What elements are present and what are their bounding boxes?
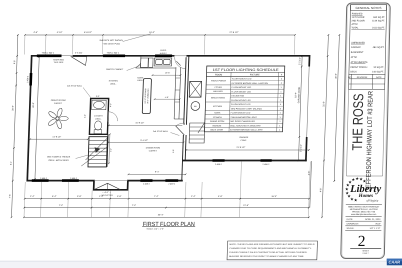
svg-text:2'-4": 2'-4" bbox=[191, 195, 196, 198]
svg-text:2 458-2: 2 458-2 bbox=[263, 163, 271, 166]
svg-text:LINOL.: LINOL. bbox=[137, 79, 144, 82]
svg-text:4'-8": 4'-8" bbox=[319, 188, 322, 193]
svg-text:2111 SQ.FT.: 2111 SQ.FT. bbox=[372, 27, 385, 30]
svg-text:PLEASE CONSULT SALES CONTRACT: PLEASE CONSULT SALES CONTRACT FOR ACTUAL… bbox=[229, 251, 308, 254]
garage width dim bbox=[186, 149, 309, 151]
svg-text:2 458-2: 2 458-2 bbox=[40, 177, 48, 180]
svg-text:9'-4 1/2": 9'-4 1/2" bbox=[140, 139, 148, 142]
svg-text:GREAT ROOM: GREAT ROOM bbox=[211, 97, 225, 100]
svg-text:TOTAL: TOTAL bbox=[351, 27, 359, 30]
svg-text:ONE STAIRS 5 TREADS: ONE STAIRS 5 TREADS bbox=[47, 156, 71, 159]
interior dim 8-4 bbox=[129, 173, 186, 175]
svg-text:36'-4": 36'-4" bbox=[158, 213, 164, 216]
kitchen dims bbox=[152, 74, 180, 76]
svg-text:★: ★ bbox=[354, 198, 358, 203]
angled patio door triangle bbox=[71, 57, 87, 66]
svg-text:Homes: Homes bbox=[358, 193, 374, 199]
svg-text:27'-8 1/2": 27'-8 1/2" bbox=[229, 31, 239, 34]
svg-text:32 SQ.FT.: 32 SQ.FT. bbox=[373, 66, 384, 69]
date / drawn / scale rows bbox=[345, 220, 381, 222]
svg-text:APRIL 21, 2023: APRIL 21, 2023 bbox=[365, 218, 381, 221]
svg-text:FLUSH MOUNT LED: FLUSH MOUNT LED bbox=[231, 99, 251, 102]
svg-text:2: 2 bbox=[357, 233, 365, 250]
svg-text:HALLWAY: HALLWAY bbox=[213, 90, 223, 93]
lighting schedule table bbox=[204, 66, 284, 132]
svg-text:3'-8": 3'-8" bbox=[77, 195, 82, 198]
svg-text:4'-0": 4'-0" bbox=[109, 103, 112, 107]
svg-text:www.libertyhomesofva.com: www.libertyhomesofva.com bbox=[351, 213, 377, 216]
top dimension extension lines bbox=[23, 36, 26, 55]
svg-text:4'-8": 4'-8" bbox=[308, 171, 311, 176]
svg-text:21'-8": 21'-8" bbox=[243, 204, 249, 207]
svg-text:2'-2 1/2": 2'-2 1/2" bbox=[298, 57, 301, 65]
revision table bbox=[349, 74, 385, 89]
bath toilet bbox=[94, 130, 102, 134]
svg-text:FRONT PORCH: FRONT PORCH bbox=[211, 80, 227, 83]
svg-text:ATTIC: ATTIC bbox=[351, 23, 358, 26]
svg-text:WALL MOUNTED FLOODLIGHT: WALL MOUNTED FLOODLIGHT bbox=[230, 124, 261, 127]
svg-text:1149 SQ.FT.: 1149 SQ.FT. bbox=[372, 19, 385, 22]
svg-text:ROOM: ROOM bbox=[215, 73, 222, 76]
svg-text:FLUSH MOUNT LED: FLUSH MOUNT LED bbox=[231, 103, 251, 106]
disclaimer note box bbox=[227, 241, 317, 260]
svg-text:SHEET: SHEET bbox=[362, 250, 370, 253]
kitchen counter along top bbox=[136, 67, 176, 69]
svg-text:5'-8": 5'-8" bbox=[84, 114, 87, 118]
title block (right side) bbox=[341, 3, 391, 259]
svg-text:CARPET: CARPET bbox=[149, 149, 158, 152]
kitchen island bbox=[142, 79, 151, 114]
left dimension line bbox=[12, 35, 18, 217]
project title vertical text bbox=[347, 89, 349, 176]
svg-text:of Virginia: of Virginia bbox=[366, 200, 379, 203]
svg-text:CAAR: CAAR bbox=[389, 260, 401, 265]
photo bottom edge strip bbox=[0, 260, 402, 262]
svg-text:CHANGES DUE TO CODE REQUIREMEN: CHANGES DUE TO CODE REQUIREMENTS AND MEC… bbox=[229, 247, 312, 250]
svg-text:7'-4": 7'-4" bbox=[132, 204, 137, 207]
windows bottom wall bbox=[32, 179, 49, 182]
svg-text:GREAT ROOM: GREAT ROOM bbox=[51, 99, 66, 102]
windows top wall bbox=[37, 54, 62, 57]
svg-text:2'-4": 2'-4" bbox=[30, 195, 35, 198]
svg-text:2x6 STUD WALL: 2x6 STUD WALL bbox=[67, 85, 83, 88]
dishwasher bbox=[148, 58, 153, 67]
svg-text:8x8 DECK NOT SHOWN: 8x8 DECK NOT SHOWN bbox=[100, 39, 124, 42]
svg-text:BASEMENT: BASEMENT bbox=[351, 51, 364, 54]
svg-text:26'-8": 26'-8" bbox=[32, 102, 35, 108]
svg-text:1ST FLOOR LIGHTING SCHEDULE: 1ST FLOOR LIGHTING SCHEDULE bbox=[213, 68, 280, 72]
great room width dim bbox=[30, 138, 88, 140]
half bath walls bbox=[89, 99, 108, 135]
svg-text:2x6 STUD WALL: 2x6 STUD WALL bbox=[153, 130, 169, 133]
right dimension lines bbox=[298, 56, 302, 161]
svg-text:LINOL.: LINOL. bbox=[95, 117, 102, 120]
svg-text:2'-2": 2'-2" bbox=[96, 95, 100, 98]
svg-text:W/ GUTTER: W/ GUTTER bbox=[101, 194, 113, 197]
svg-text:DRAWN BY:: DRAWN BY: bbox=[347, 223, 360, 226]
svg-text:DATE: DATE bbox=[376, 76, 382, 79]
svg-text:30'-8": 30'-8" bbox=[334, 73, 337, 79]
svg-text:FRONT PORCH: FRONT PORCH bbox=[350, 66, 367, 69]
svg-text:4'-8": 4'-8" bbox=[218, 195, 223, 198]
door house to garage bbox=[182, 124, 188, 136]
svg-text:GARAGE: GARAGE bbox=[351, 46, 361, 49]
svg-text:3'-8": 3'-8" bbox=[117, 195, 122, 198]
svg-text:962 SQ.FT.: 962 SQ.FT. bbox=[373, 16, 385, 19]
svg-text:18'-6": 18'-6" bbox=[165, 72, 170, 75]
ceiling fan bbox=[56, 117, 59, 120]
svg-text:TEMPERED: TEMPERED bbox=[53, 58, 65, 61]
svg-text:14'-8 1/2": 14'-8 1/2" bbox=[52, 135, 61, 138]
svg-text:★: ★ bbox=[355, 176, 359, 181]
pantry cabinet bbox=[141, 58, 149, 67]
svg-text:PANTRY CABINET: PANTRY CABINET bbox=[106, 68, 124, 71]
svg-text:2 BULB BATHROOM LIGHT: 2 BULB BATHROOM LIGHT bbox=[230, 116, 257, 119]
garage entry steps bbox=[189, 123, 205, 143]
svg-text:DECK: DECK bbox=[350, 70, 357, 73]
svg-text:2 458-2: 2 458-2 bbox=[70, 177, 78, 180]
svg-text:FLUSH MOUNT LED: FLUSH MOUNT LED bbox=[231, 86, 251, 89]
svg-text:2 458-2: 2 458-2 bbox=[168, 183, 176, 186]
svg-text:GARAGE: GARAGE bbox=[212, 124, 222, 127]
svg-text:W/ 9" OVERHANG: W/ 9" OVERHANG bbox=[146, 88, 150, 104]
svg-text:21'-8": 21'-8" bbox=[322, 101, 325, 107]
svg-text:5'-4": 5'-4" bbox=[10, 161, 13, 165]
svg-text:4'-8": 4'-8" bbox=[33, 31, 38, 34]
svg-text:NO.: NO. bbox=[348, 76, 352, 79]
svg-text:GARAGE DOOR: GARAGE DOOR bbox=[297, 86, 301, 103]
svg-text:- SEE DECK PLAN: - SEE DECK PLAN bbox=[102, 42, 120, 45]
svg-text:CARPET: CARPET bbox=[54, 102, 63, 105]
svg-text:KITCHEN: KITCHEN bbox=[109, 80, 119, 83]
interior dim 31-8 bbox=[109, 125, 184, 127]
svg-text:FIXED: FIXED bbox=[160, 49, 167, 52]
svg-text:4'-10": 4'-10" bbox=[57, 31, 63, 34]
svg-text:OPEN - BOTH SIDES: OPEN - BOTH SIDES bbox=[48, 159, 69, 162]
svg-text:KITCHEN: KITCHEN bbox=[213, 105, 223, 108]
right counter band bbox=[174, 67, 176, 119]
svg-text:FLUSH MOUNT LED: FLUSH MOUNT LED bbox=[231, 90, 251, 93]
svg-text:2 458-2: 2 458-2 bbox=[26, 75, 29, 83]
svg-text:16'-0": 16'-0" bbox=[149, 31, 155, 34]
svg-text:MID SIZED CHANDELIER: MID SIZED CHANDELIER bbox=[230, 120, 255, 123]
svg-text:26'-8": 26'-8" bbox=[11, 105, 14, 111]
svg-text:DINING ROOM: DINING ROOM bbox=[210, 120, 225, 123]
svg-text:16'-4": 16'-4" bbox=[271, 195, 277, 198]
svg-text:GARAGE: GARAGE bbox=[239, 136, 249, 139]
svg-text:THE ROSS: THE ROSS bbox=[349, 94, 366, 151]
svg-text:EXTERIOR BRONZE WALL LANTERN: EXTERIOR BRONZE WALL LANTERN bbox=[232, 82, 269, 85]
svg-text:FOYER: FOYER bbox=[215, 86, 223, 89]
great room interior vertical dim bbox=[35, 57, 39, 180]
floor plan drawing (skewed like photo) bbox=[6, 31, 340, 260]
svg-text:TWIN 2 845-2: TWIN 2 845-2 bbox=[41, 52, 54, 55]
svg-text:7'-4": 7'-4" bbox=[59, 204, 64, 207]
svg-text:5'-4": 5'-4" bbox=[52, 195, 57, 198]
svg-text:THIS SIDE: THIS SIDE bbox=[53, 61, 64, 64]
main stairs bbox=[88, 137, 107, 167]
interior dim ticks bbox=[152, 74, 154, 76]
svg-text:1/2 BATH: 1/2 BATH bbox=[94, 115, 103, 118]
svg-text:140 SQ.FT.: 140 SQ.FT. bbox=[372, 70, 384, 73]
svg-text:21'-8 1/2": 21'-8 1/2" bbox=[237, 146, 246, 149]
svg-text:2'-2 1/2": 2'-2 1/2" bbox=[299, 144, 302, 152]
svg-text:GENERAL NOTES: GENERAL NOTES bbox=[355, 6, 381, 10]
svg-text:1/2 BATH: 1/2 BATH bbox=[213, 116, 222, 119]
kitchen sink bbox=[154, 58, 172, 66]
svg-text:DATE:: DATE: bbox=[347, 218, 354, 221]
svg-text:4-853-2: 4-853-2 bbox=[160, 52, 168, 55]
porch gables bbox=[94, 180, 128, 182]
back door opening bbox=[174, 55, 186, 58]
interior dim 9-4 bbox=[108, 142, 183, 144]
window left wall bbox=[29, 73, 32, 86]
svg-text:TWIN 2 845-2: TWIN 2 845-2 bbox=[106, 52, 119, 55]
bath vanity bbox=[92, 100, 107, 109]
svg-text:8'-4": 8'-4" bbox=[155, 170, 160, 173]
svg-text:16'-4": 16'-4" bbox=[294, 92, 297, 98]
svg-text:2 OF 7: 2 OF 7 bbox=[362, 252, 369, 255]
svg-text:FLUSH MOUNT LED: FLUSH MOUNT LED bbox=[232, 78, 252, 81]
svg-text:2 458-2: 2 458-2 bbox=[215, 163, 223, 166]
svg-text:NOOK: NOOK bbox=[137, 76, 144, 79]
svg-text:★: ★ bbox=[362, 178, 366, 183]
bath door swing bbox=[108, 112, 110, 122]
top dimension line bbox=[25, 34, 295, 36]
svg-text:BUILDER RESERVES THE RIGHT TO: BUILDER RESERVES THE RIGHT TO MAKE CHANG… bbox=[229, 255, 305, 258]
bottom dimension lines row2 bbox=[24, 207, 308, 209]
garage door opening bbox=[305, 67, 310, 138]
svg-text:4'-8": 4'-8" bbox=[8, 194, 11, 198]
svg-text:FIXTURE: FIXTURE bbox=[250, 73, 260, 76]
svg-text:ATTIC: ATTIC bbox=[351, 56, 358, 59]
svg-text:CONC.: CONC. bbox=[240, 139, 247, 142]
svg-text:NOOK: NOOK bbox=[214, 112, 221, 115]
svg-text:MINI PENDANT LIGHT (ISLAND): MINI PENDANT LIGHT (ISLAND) bbox=[231, 107, 262, 110]
svg-text:5'-8": 5'-8" bbox=[13, 60, 16, 64]
stair side dim bbox=[109, 134, 110, 163]
svg-text:3'-8 3/4": 3'-8 3/4" bbox=[75, 52, 83, 55]
svg-text:DINING ROOM: DINING ROOM bbox=[146, 146, 161, 149]
bottom overall dimension bbox=[24, 216, 309, 218]
svg-text:2 458-2: 2 458-2 bbox=[143, 183, 151, 186]
svg-text:REVISION: REVISION bbox=[357, 76, 368, 79]
interior wall foyer/dining bbox=[107, 134, 108, 167]
svg-text:6'-8 1/2": 6'-8 1/2" bbox=[84, 31, 92, 34]
svg-text:NOTE: THESE PLANS ARE DEEMED A: NOTE: THESE PLANS ARE DEEMED ACCURATE BU… bbox=[230, 243, 316, 246]
stair direction arrowhead bbox=[94, 147, 100, 153]
svg-text:5'-8": 5'-8" bbox=[172, 149, 175, 153]
svg-text:1/4" = 1'-0": 1/4" = 1'-0" bbox=[369, 227, 380, 230]
back door swing bbox=[174, 57, 186, 68]
svg-text:EXTERIOR BRONZE WALL LIGHT: EXTERIOR BRONZE WALL LIGHT bbox=[230, 129, 263, 132]
svg-text:SCALE:: SCALE: bbox=[346, 227, 354, 230]
general notes box bbox=[349, 5, 387, 75]
bottom dimension extension lines bbox=[24, 182, 25, 217]
CAAR watermark logo bbox=[387, 259, 402, 266]
svg-text:← 4'-0" →: ← 4'-0" → bbox=[102, 191, 111, 194]
svg-text:FLUSH MOUNT LED: FLUSH MOUNT LED bbox=[231, 112, 251, 115]
furnace unit bbox=[189, 81, 201, 97]
windows garage bottom wall bbox=[212, 159, 224, 162]
counter cabinet dividers bbox=[176, 77, 181, 79]
svg-text:CEILING FAN: CEILING FAN bbox=[231, 95, 245, 98]
svg-text:2ND FLOOR: 2ND FLOOR bbox=[352, 19, 366, 22]
exterior walls bbox=[32, 55, 310, 57]
svg-text:★: ★ bbox=[359, 177, 363, 182]
svg-text:484 SQ.FT.: 484 SQ.FT. bbox=[373, 46, 385, 49]
svg-text:3'-0": 3'-0" bbox=[109, 148, 112, 152]
svg-text:1ST FLOOR: 1ST FLOOR bbox=[352, 16, 365, 19]
water heater bbox=[191, 102, 200, 111]
bottom dimension lines row1 bbox=[25, 198, 309, 200]
patio door opening bbox=[62, 54, 73, 57]
svg-text:LINOL.: LINOL. bbox=[110, 82, 117, 85]
svg-text:4'-6": 4'-6" bbox=[165, 96, 169, 99]
svg-text:SCALE: 1/4" = 1'-0": SCALE: 1/4" = 1'-0" bbox=[146, 227, 164, 230]
svg-text:7'-4": 7'-4" bbox=[154, 195, 159, 198]
svg-text:31'-8 1/2": 31'-8 1/2" bbox=[135, 122, 144, 125]
svg-text:BACK DOOR: BACK DOOR bbox=[210, 129, 223, 132]
